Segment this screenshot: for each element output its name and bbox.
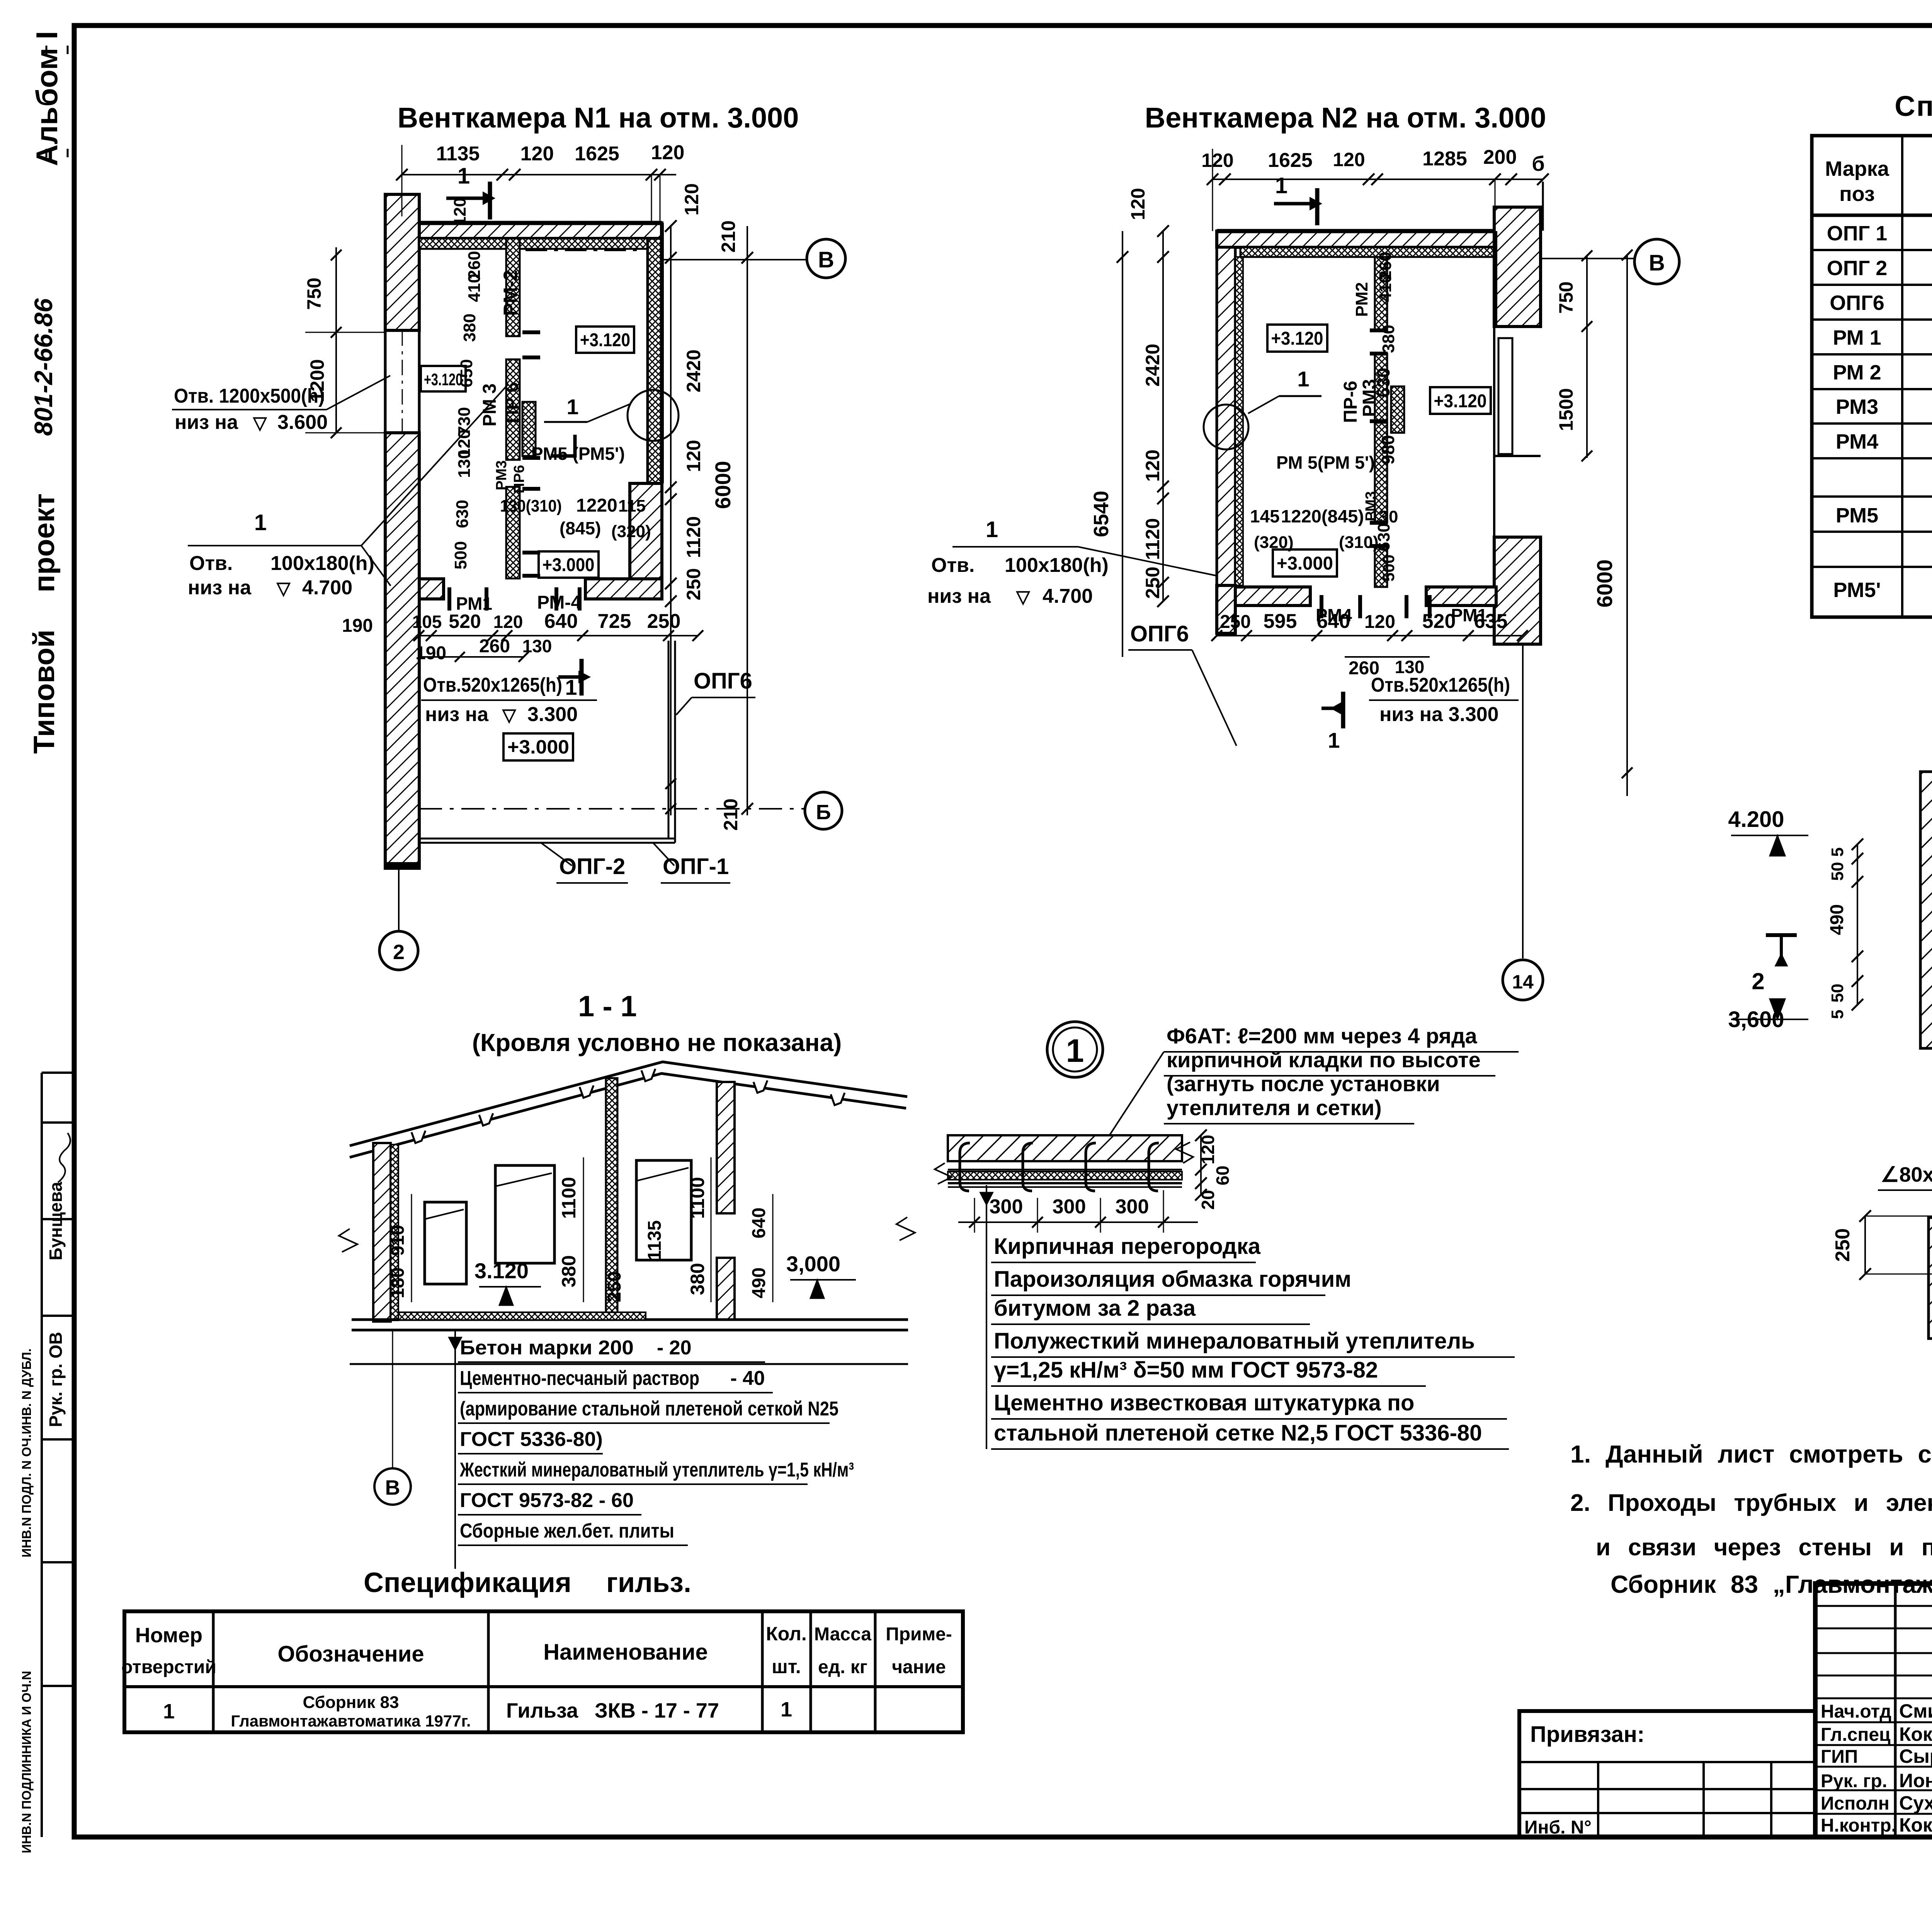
spec sleeves row (163, 1693, 792, 1730)
svg-text:Жесткий минераловатный утеплит: Жесткий минераловатный утеплитель γ=1,5 … (459, 1459, 854, 1481)
svg-text:+3.000: +3.000 (1277, 553, 1333, 574)
spec table metal header text (1825, 156, 1932, 206)
svg-text:низ на: низ на (188, 577, 252, 599)
detail 1 circle label (1047, 1022, 1103, 1077)
plan2 inner partition (1375, 257, 1387, 587)
svg-text:490: 490 (1827, 904, 1847, 935)
svg-text:РМ3: РМ3 (493, 460, 510, 490)
svg-text:60: 60 (1213, 1165, 1233, 1185)
svg-text:250: 250 (604, 1271, 625, 1302)
detail 1 right dims (1195, 1129, 1233, 1210)
svg-text:ОПГ6: ОПГ6 (694, 668, 752, 694)
svg-text:(320): (320) (611, 522, 651, 541)
title block grid (1815, 1584, 1932, 1837)
svg-text:3,000: 3,000 (786, 1252, 840, 1276)
svg-text:ОПГ6: ОПГ6 (1830, 291, 1884, 315)
plan1 interior labels (421, 197, 651, 614)
svg-text:Венткамера N2 на отм. 3.000: Венткамера N2 на отм. 3.000 (1145, 102, 1546, 134)
svg-text:ГИП: ГИП (1821, 1747, 1858, 1767)
detail 1 note rebar (1109, 1024, 1519, 1136)
svg-text:Спецификация гильз.: Спецификация гильз. (364, 1567, 691, 1598)
svg-text:120: 120 (1142, 449, 1163, 481)
svg-text:130(310): 130(310) (500, 497, 562, 515)
margin label: album (30, 31, 68, 166)
svg-text:380: 380 (558, 1255, 580, 1287)
svg-text:Отв.520х1265(h): Отв.520х1265(h) (1371, 674, 1510, 696)
svg-text:кирпичной кладки по высоте: кирпичной кладки по высоте (1167, 1048, 1481, 1072)
svg-text:РМ 2: РМ 2 (1833, 361, 1881, 384)
svg-text:РМ1: РМ1 (1451, 605, 1487, 625)
svg-text:490: 490 (749, 1267, 769, 1298)
svg-text:595: 595 (1264, 610, 1297, 633)
svg-text:низ на 3.300: низ на 3.300 (1379, 703, 1499, 726)
svg-text:РМ2: РМ2 (1352, 282, 1371, 317)
svg-text:низ на: низ на (927, 585, 991, 607)
svg-text:190: 190 (415, 643, 446, 663)
svg-text:- 20: - 20 (657, 1337, 692, 1359)
svg-text:поз: поз (1839, 182, 1875, 206)
svg-text:500: 500 (1379, 555, 1398, 582)
plan1 left dims (303, 247, 386, 438)
notes text (1570, 1440, 1932, 1598)
svg-text:+3.000: +3.000 (543, 555, 595, 575)
plan1 right dims (665, 183, 753, 830)
svg-text:РМ5: РМ5 (1836, 504, 1878, 527)
svg-text:Рук. гр. ОВ: Рук. гр. ОВ (46, 1332, 66, 1427)
svg-text:+3.120: +3.120 (1271, 328, 1323, 349)
svg-text:120: 120 (451, 197, 469, 226)
plan1 opening note 520x1265 (421, 674, 597, 726)
svg-text:Цементно известковая штукатурк: Цементно известковая штукатурка по (994, 1390, 1414, 1415)
svg-text:260: 260 (1376, 252, 1395, 280)
plan1 opening note 100x180 (188, 386, 506, 599)
section 1-1 windows (425, 1160, 691, 1284)
plan2 bottom dims (1211, 610, 1528, 679)
plan1 left wall opening 1200x500 (385, 330, 419, 433)
svg-text:(320): (320) (1254, 533, 1294, 552)
svg-text:ОПГ 2: ОПГ 2 (1827, 257, 1887, 280)
svg-text:50: 50 (1828, 984, 1847, 1003)
svg-text:б: б (1532, 152, 1544, 175)
svg-text:250: 250 (647, 610, 681, 633)
svg-text:1: 1 (254, 510, 267, 535)
plan2 top wall (1217, 231, 1496, 257)
svg-text:Привязан:: Привязан: (1530, 1722, 1645, 1747)
svg-text:Главмонтажавтоматика 1977г.: Главмонтажавтоматика 1977г. (231, 1712, 471, 1730)
svg-text:640: 640 (749, 1208, 769, 1238)
svg-text:1: 1 (1297, 367, 1309, 391)
svg-text:120: 120 (1127, 188, 1149, 220)
svg-text:Нач.отд: Нач.отд (1821, 1701, 1891, 1722)
svg-text:+3.120: +3.120 (1434, 391, 1487, 412)
svg-text:1625: 1625 (1268, 149, 1313, 172)
svg-text:410: 410 (465, 274, 484, 302)
svg-text:120: 120 (1198, 1135, 1218, 1165)
plan2 left dims (1090, 188, 1169, 657)
svg-text:Б: Б (816, 801, 831, 824)
plan1 level label bottom (503, 733, 573, 760)
svg-text:50: 50 (1828, 862, 1847, 881)
svg-text:1: 1 (566, 395, 578, 419)
svg-text:2420: 2420 (683, 349, 704, 392)
svg-text:2: 2 (393, 941, 405, 964)
svg-text:1285: 1285 (1422, 148, 1467, 170)
plan1 left wall upper (385, 194, 419, 330)
svg-text:1: 1 (565, 675, 577, 699)
svg-text:6000: 6000 (711, 461, 735, 509)
svg-text:Сборные жел.бет. плиты: Сборные жел.бет. плиты (460, 1520, 674, 1542)
svg-text:ОПГ 1: ОПГ 1 (1827, 222, 1887, 245)
plan2 leader detail circle (1204, 367, 1321, 449)
svg-text:1500: 1500 (1555, 388, 1577, 431)
svg-text:проект: проект (28, 493, 61, 592)
plan2 left wall (1217, 247, 1243, 633)
plan1 bottom dims (342, 610, 703, 663)
plan2 right wall top corner (1494, 207, 1541, 327)
svg-text:и связи через стены и пере: и связи через стены и перекрытия промышл… (1596, 1534, 1932, 1561)
detail 2 wall with hatch (1920, 769, 1932, 1082)
detail 2 section marks 2 (1752, 935, 1932, 994)
svg-text:120: 120 (520, 143, 554, 165)
plan2 right opening channel (1494, 327, 1541, 537)
svg-text:4.200: 4.200 (1728, 807, 1784, 832)
plan1 room axis dashdot (526, 250, 643, 251)
svg-text:Гл.спец: Гл.спец (1821, 1725, 1891, 1745)
svg-text:Отв.: Отв. (189, 552, 233, 575)
svg-text:300: 300 (1116, 1196, 1149, 1218)
svg-text:низ на: низ на (425, 703, 489, 726)
spec table metal title (1895, 90, 1932, 122)
svg-text:Венткамера N1 на отм. 3.000: Венткамера N1 на отм. 3.000 (398, 102, 799, 134)
svg-text:Гильза: Гильза (506, 1699, 578, 1722)
svg-text:1 - 1: 1 - 1 (578, 990, 637, 1023)
svg-text:ЗКВ - 17 - 77: ЗКВ - 17 - 77 (595, 1699, 719, 1722)
section 1-1 axis B bottom (374, 1330, 411, 1505)
svg-text:ГОСТ 5336-80): ГОСТ 5336-80) (460, 1428, 603, 1451)
svg-text:750: 750 (1555, 281, 1577, 313)
svg-text:6000: 6000 (1592, 560, 1617, 608)
svg-text:1: 1 (163, 1700, 175, 1723)
svg-text:Марка: Марка (1825, 157, 1889, 180)
plan1 axis 2 circle (379, 867, 418, 970)
svg-text:380: 380 (687, 1263, 708, 1295)
svg-text:Масса: Масса (814, 1624, 871, 1645)
plan1 interior door marks bottom (449, 587, 580, 611)
section 1-1 interior walls (606, 1078, 735, 1320)
section 2-2 walls (1929, 1218, 1932, 1340)
svg-text:630: 630 (1373, 368, 1393, 398)
plan2 axis b line (1542, 182, 1544, 231)
svg-text:1: 1 (986, 517, 998, 542)
svg-text:ПР-6: ПР-6 (1340, 381, 1361, 423)
svg-text:200: 200 (1483, 146, 1517, 168)
svg-text:190: 190 (342, 616, 373, 636)
svg-text:5: 5 (1828, 1010, 1847, 1019)
svg-text:250: 250 (683, 568, 704, 600)
svg-text:Приме-: Приме- (886, 1624, 952, 1645)
svg-text:Кокрев: Кокрев (1899, 1723, 1932, 1745)
svg-text:120: 120 (493, 612, 523, 632)
svg-text:Обозначение: Обозначение (277, 1641, 424, 1667)
svg-text:180: 180 (388, 1267, 408, 1298)
svg-text:120: 120 (681, 183, 702, 215)
svg-text:ГОСТ 9573-82 - 60: ГОСТ 9573-82 - 60 (460, 1489, 634, 1512)
detail 2 left dims (1728, 807, 1863, 1032)
svg-text:Бунщева: Бунщева (46, 1182, 66, 1260)
plan2 bottom wall (1235, 587, 1496, 606)
svg-text:1: 1 (1275, 173, 1287, 198)
svg-text:650: 650 (457, 359, 476, 387)
svg-text:250: 250 (1220, 612, 1251, 632)
spec sleeves header (121, 1623, 952, 1677)
svg-text:520: 520 (449, 611, 481, 632)
svg-text:Кирпичная перегородка: Кирпичная перегородка (994, 1234, 1261, 1259)
svg-text:▽: ▽ (252, 413, 267, 433)
svg-text:ПР 6: ПР 6 (502, 382, 522, 424)
plan2 partition jamb marks (1370, 330, 1404, 546)
plan2 opening note 520x1265 (1369, 674, 1519, 726)
svg-text:1220(845): 1220(845) (1281, 506, 1364, 526)
svg-text:▽: ▽ (1015, 587, 1031, 607)
svg-text:1: 1 (457, 163, 470, 189)
svg-text:130: 130 (522, 636, 552, 656)
svg-text:Сборник 83: Сборник 83 (303, 1693, 399, 1712)
svg-text:380: 380 (1379, 325, 1398, 353)
svg-text:1220: 1220 (576, 495, 617, 516)
svg-text:▽: ▽ (276, 578, 291, 598)
svg-text:Исполн: Исполн (1821, 1793, 1889, 1814)
svg-text:Кокрев: Кокрев (1899, 1814, 1932, 1836)
svg-text:Бетон марки 200: Бетон марки 200 (460, 1337, 634, 1359)
detail 1 material legend (980, 1185, 1515, 1449)
svg-text:Сыркин: Сыркин (1899, 1745, 1932, 1767)
svg-text:ед. кг: ед. кг (818, 1657, 867, 1677)
svg-text:4.700: 4.700 (1043, 585, 1093, 607)
svg-text:120: 120 (683, 440, 704, 472)
svg-text:640: 640 (544, 610, 578, 633)
plan1 frame marks RM (522, 332, 540, 576)
plan 2 title (1145, 102, 1546, 134)
svg-text:Номер: Номер (135, 1624, 202, 1647)
plan1 bottom wall right segment (585, 579, 662, 599)
svg-text:Цементно-песчаный раствор: Цементно-песчаный раствор (460, 1367, 699, 1390)
svg-text:1: 1 (1066, 1032, 1084, 1069)
plan1 opening note 1200x500 (172, 376, 390, 434)
svg-text:В: В (818, 247, 834, 272)
svg-text:ОПГ6: ОПГ6 (1130, 621, 1189, 646)
plan1 platform rail OPG (419, 641, 675, 843)
plan2 right dims (1555, 255, 1633, 796)
svg-text:725: 725 (598, 610, 631, 633)
svg-text:Пароизоляция обмазка горячим: Пароизоляция обмазка горячим (994, 1267, 1351, 1292)
svg-text:+3.120: +3.120 (424, 370, 463, 389)
svg-text:утеплителя и сетки): утеплителя и сетки) (1167, 1095, 1382, 1120)
svg-text:910: 910 (388, 1225, 408, 1256)
svg-text:2420: 2420 (1142, 344, 1163, 386)
section 1-1 title (472, 990, 842, 1056)
plan2 axis 14 circle (1503, 644, 1543, 1000)
svg-text:(армирование стальной плетеной: (армирование стальной плетеной сеткой N2… (460, 1398, 838, 1420)
svg-text:Ионова: Ионова (1899, 1770, 1932, 1791)
svg-text:120: 120 (651, 141, 685, 164)
plan2 dimension chain top (1201, 146, 1549, 231)
svg-text:Спецификация металлических э: Спецификация металлических элементов (1895, 90, 1932, 122)
svg-text:1100: 1100 (687, 1177, 708, 1219)
svg-text:Сухова: Сухова (1899, 1792, 1932, 1814)
svg-text:3.600: 3.600 (277, 411, 328, 434)
svg-text:801-2-66.86: 801-2-66.86 (29, 298, 58, 436)
svg-text:120: 120 (1201, 150, 1233, 171)
svg-text:980: 980 (1378, 435, 1398, 465)
detail 1 bottom dims (958, 1190, 1198, 1233)
svg-text:ИНВ.N ПОДЛ. N ОЧ.ИНВ. N ДУБЛ.: ИНВ.N ПОДЛ. N ОЧ.ИНВ. N ДУБЛ. (19, 1349, 34, 1558)
plan1 section mark 1 top (446, 163, 495, 219)
svg-text:1: 1 (781, 1698, 792, 1721)
svg-text:2: 2 (1752, 968, 1764, 994)
detail 1 wall band (935, 1135, 1193, 1191)
svg-text:Инб. N°: Инб. N° (1524, 1817, 1592, 1838)
plan2 section mark 1 bottom (1321, 692, 1343, 752)
plan1 leader detail circle (544, 390, 679, 456)
svg-text:РМ5': РМ5' (1833, 578, 1881, 602)
svg-text:битумом за 2 раза: битумом за 2 раза (994, 1296, 1196, 1321)
plan2 right wall lower (1494, 537, 1541, 644)
section 1-1 roof (350, 1062, 907, 1157)
spec sleeves grid (124, 1611, 963, 1732)
plan1 dimension chain top (396, 141, 684, 223)
svg-text:чание: чание (892, 1657, 946, 1677)
svg-text:Отв. 1200х500(h): Отв. 1200х500(h) (174, 385, 325, 407)
svg-text:+3.000: +3.000 (507, 736, 569, 758)
svg-text:Отв.520х1265(h): Отв.520х1265(h) (423, 674, 562, 696)
svg-text:1625: 1625 (575, 143, 619, 165)
svg-text:РМ-2: РМ-2 (500, 270, 521, 316)
svg-text:14: 14 (1512, 971, 1534, 993)
svg-text:3.300: 3.300 (527, 703, 578, 726)
svg-text:130: 130 (1370, 507, 1398, 526)
svg-text:100х180(h): 100х180(h) (1005, 554, 1109, 577)
svg-text:210: 210 (718, 220, 739, 252)
svg-text:шт.: шт. (772, 1656, 801, 1677)
plan1 bottom wall left segment (419, 579, 444, 599)
svg-text:120: 120 (1364, 612, 1395, 632)
svg-text:120: 120 (1333, 149, 1365, 170)
svg-text:1135: 1135 (436, 143, 480, 165)
svg-text:250: 250 (1832, 1228, 1854, 1262)
section 1-1 dims (388, 1157, 856, 1305)
svg-text:Ф6АТ: ℓ=200 мм через 4 ряда: Ф6АТ: ℓ=200 мм через 4 ряда (1167, 1024, 1478, 1048)
svg-text:▽: ▽ (502, 705, 517, 725)
svg-text:4.700: 4.700 (302, 577, 352, 599)
svg-text:Смирнов: Смирнов (1899, 1700, 1932, 1722)
svg-text:2. Проходы трубных и электр: 2. Проходы трубных и электрических прово… (1570, 1490, 1932, 1516)
svg-text:3.120: 3.120 (474, 1259, 529, 1283)
svg-text:5: 5 (1828, 847, 1847, 857)
plan1 top wall (419, 223, 662, 249)
section 1-1 left wall (373, 1143, 398, 1322)
plan 1 title (398, 102, 799, 134)
svg-text:380: 380 (460, 313, 479, 342)
svg-text:300: 300 (990, 1196, 1023, 1218)
svg-text:РМ4: РМ4 (1316, 605, 1352, 625)
svg-text:Наименование: Наименование (543, 1640, 708, 1665)
svg-text:1. Данный лист смотреть сов: 1. Данный лист смотреть совместно с лист… (1570, 1440, 1932, 1468)
margin label: project number (28, 298, 61, 754)
svg-text:Н.контр.: Н.контр. (1821, 1815, 1896, 1836)
svg-text:РМ3: РМ3 (1836, 395, 1878, 418)
plan1 left wall lower (384, 433, 421, 870)
svg-text:В: В (1649, 250, 1665, 276)
left margin rule (42, 1073, 74, 1837)
svg-text:115: 115 (618, 497, 646, 515)
svg-text:ОПГ-1: ОПГ-1 (663, 854, 729, 879)
plan2 interior labels (1250, 252, 1491, 625)
svg-text:+3.120: +3.120 (580, 330, 630, 350)
plan2 opg6 label (1128, 621, 1236, 746)
svg-text:100х180(h): 100х180(h) (270, 552, 374, 575)
plan1 right wall insulated (648, 223, 662, 483)
spec sleeves title (364, 1567, 691, 1598)
plan1 right wall lower (630, 483, 662, 599)
plan2 opening note 100x180 (927, 517, 1217, 607)
svg-text:Типовой: Типовой (28, 629, 61, 754)
svg-text:Рук. гр.: Рук. гр. (1821, 1771, 1887, 1791)
svg-text:1: 1 (1328, 728, 1340, 752)
svg-text:ОПГ-2: ОПГ-2 (559, 854, 625, 879)
svg-text:Отв.: Отв. (931, 554, 975, 577)
section 1-1 material legend (448, 1330, 854, 1569)
svg-text:РМ 1: РМ 1 (1833, 326, 1881, 349)
svg-text:ПР6: ПР6 (511, 465, 527, 493)
section 2-2 dims (1832, 1210, 1932, 1280)
svg-text:стальной плетеной сетке N2,5 Г: стальной плетеной сетке N2,5 ГОСТ 5336-8… (994, 1420, 1482, 1446)
svg-text:∠80х50х5: ∠80х50х5 (1881, 1163, 1932, 1186)
svg-text:отверстий: отверстий (121, 1657, 216, 1677)
plan2 section mark 1 top (1274, 173, 1321, 225)
svg-text:(310): (310) (1339, 533, 1379, 552)
title block texts (1821, 1611, 1932, 1836)
plan1 axis B line bottom (419, 792, 842, 829)
svg-text:- 40: - 40 (730, 1367, 765, 1390)
plan1 opg labels (541, 668, 755, 883)
svg-text:РМ 3: РМ 3 (480, 383, 500, 426)
svg-text:ИНВ.N ПОДЛИННИКА И ОЧ.N: ИНВ.N ПОДЛИННИКА И ОЧ.N (19, 1671, 34, 1853)
svg-text:низ на: низ на (175, 411, 238, 434)
spec table metal grid (1812, 136, 1932, 617)
svg-text:γ=1,25 кН/м³ δ=50 мм ГОСТ 95: γ=1,25 кН/м³ δ=50 мм ГОСТ 9573-82 (994, 1357, 1378, 1383)
section 1-1 floor (350, 1312, 908, 1364)
svg-text:(Кровля условно не показана): (Кровля условно не показана) (472, 1029, 842, 1056)
section 2-2 corner label (1878, 1163, 1932, 1208)
svg-text:(845): (845) (560, 518, 601, 538)
svg-text:Кол.: Кол. (766, 1623, 806, 1645)
svg-text:1120: 1120 (683, 516, 704, 558)
svg-text:РМ4: РМ4 (1836, 430, 1878, 453)
margin label: signatures (19, 1133, 70, 1853)
attachment table (1519, 1711, 1815, 1838)
svg-text:630: 630 (453, 500, 472, 528)
svg-text:145: 145 (1250, 506, 1280, 526)
plan1 axis B circle (663, 239, 845, 278)
svg-text:750: 750 (303, 277, 325, 310)
svg-text:250: 250 (1142, 566, 1163, 599)
svg-text:20: 20 (1198, 1190, 1218, 1209)
svg-text:Полужесткий минераловатный уте: Полужесткий минераловатный утеплитель (994, 1328, 1475, 1354)
svg-text:105: 105 (412, 612, 442, 632)
svg-text:260: 260 (479, 636, 510, 657)
svg-text:1135: 1135 (645, 1220, 665, 1260)
plan1 section mark 1 bottom (558, 659, 590, 699)
